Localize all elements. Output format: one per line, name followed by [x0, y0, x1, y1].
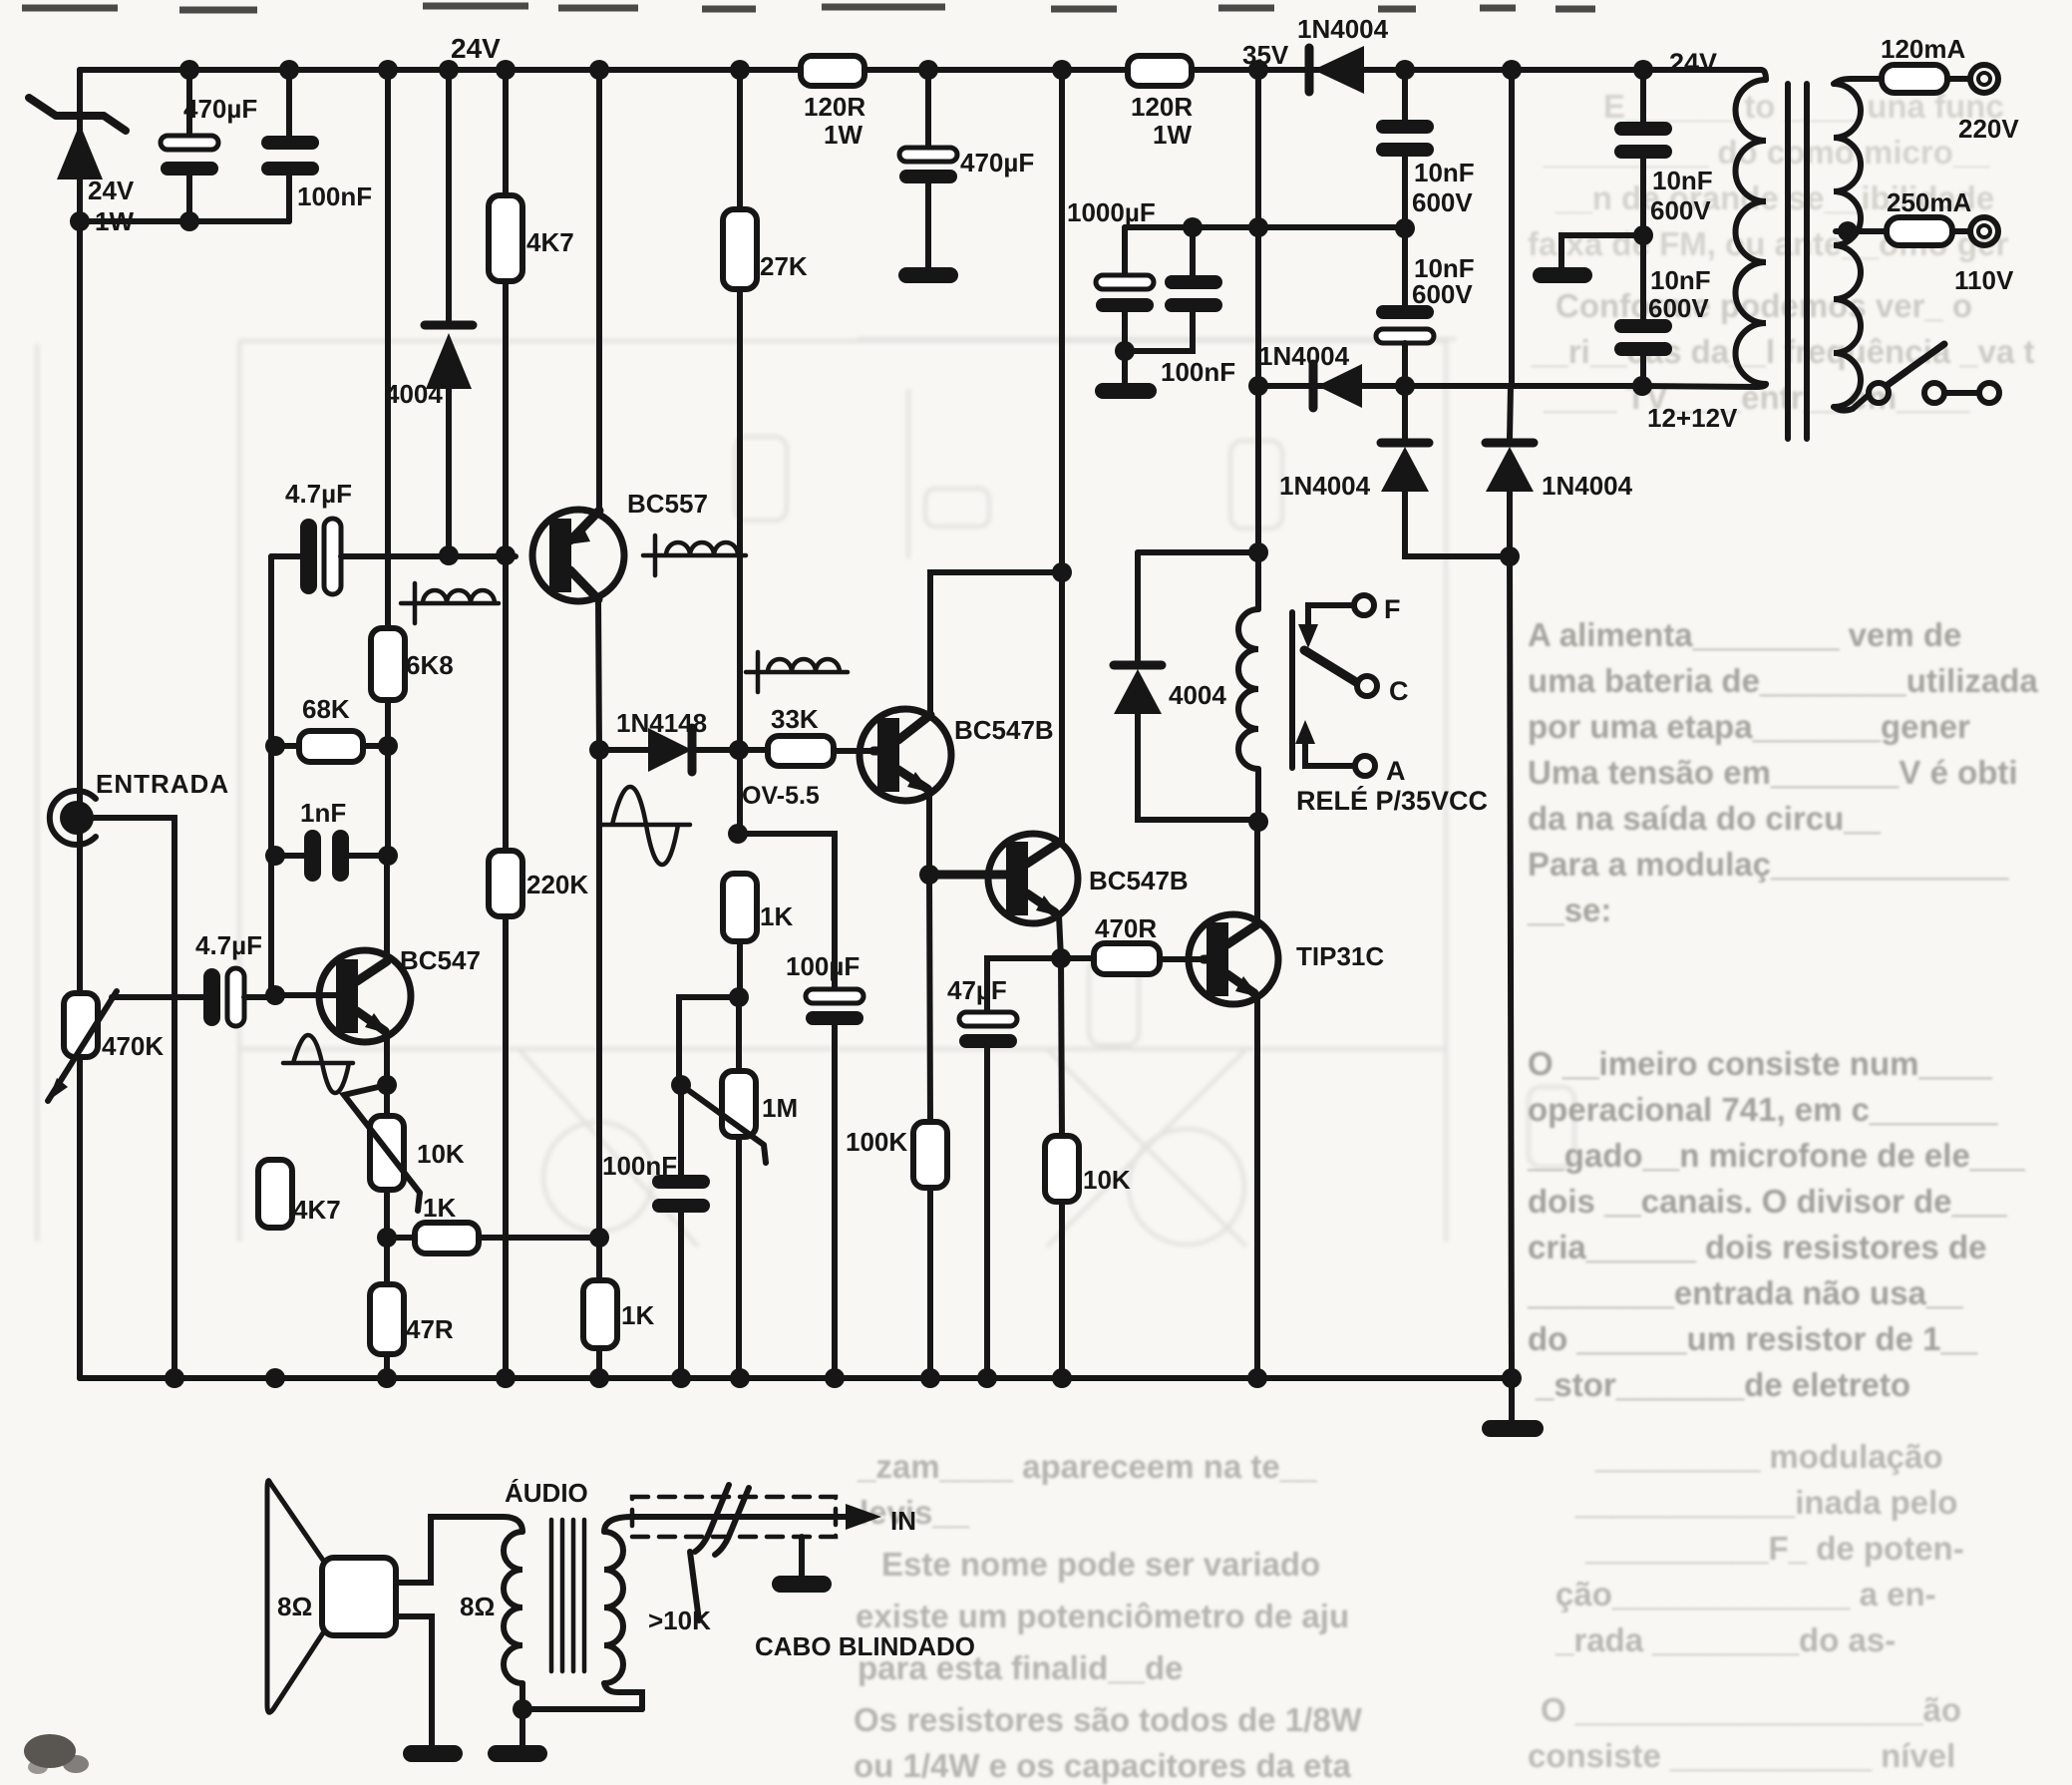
- svg-text:100nF: 100nF: [1161, 357, 1235, 387]
- node: emitter/pot junction: [377, 1075, 397, 1095]
- capacitor C2 100nF: [261, 70, 372, 221]
- node: ground junction at 100K: [920, 1368, 940, 1388]
- svg-text:8Ω: 8Ω: [277, 1592, 312, 1621]
- ground symbol main: [1482, 1420, 1544, 1437]
- svg-text:1nF: 1nF: [300, 798, 346, 828]
- node: ground junction at 47uF: [977, 1368, 997, 1388]
- svg-text:10K: 10K: [417, 1139, 465, 1169]
- node: junction x1647 on 12V line: [1632, 376, 1652, 396]
- wire: x389 column 68K node to 1nF node: [385, 746, 391, 856]
- node: ground rail right end junction: [1502, 1368, 1522, 1388]
- node: collector / 1N4148 junction: [589, 740, 609, 760]
- resistor R16 120R 1W second: [1128, 56, 1193, 150]
- wire: TIP31C collector up to relay node: [1254, 824, 1260, 924]
- svg-text:12+12V: 12+12V: [1647, 403, 1738, 433]
- resistor R10 27K: [723, 70, 808, 833]
- svg-text:1W: 1W: [1153, 120, 1192, 150]
- svg-text:____________inada pelo: ____________inada pelo: [1574, 1484, 1957, 1521]
- svg-text:Uma tensão em_______V é obti: Uma tensão em_______V é obti: [1528, 754, 2018, 791]
- svg-text:BC547B: BC547B: [954, 715, 1054, 745]
- node: ground rail junction at 47R: [377, 1368, 397, 1388]
- capacitor C15 10nF 600V fourth: [1614, 235, 1711, 386]
- wire: 0V ground rail: [80, 1375, 1512, 1381]
- resistor R11 1K vertical x742: [723, 874, 793, 997]
- svg-text:47µF: 47µF: [947, 975, 1007, 1005]
- diode D6 4004 relay flyback: [1114, 552, 1258, 820]
- diode D2 4004 vertical: [385, 70, 473, 555]
- coil squiggle right of BC557: [643, 535, 746, 575]
- capacitor C13 10nF 600V lower: [1376, 228, 1475, 386]
- svg-text:8Ω: 8Ω: [460, 1592, 495, 1621]
- svg-text:IN: IN: [890, 1506, 916, 1536]
- wire: BC557 emitter up to rail: [596, 70, 602, 511]
- wire: x1065 column from rail down to Q4 collector: [1059, 70, 1065, 843]
- wire: down to ground bar: [1122, 351, 1128, 383]
- capacitor C14 10nF 600V third: [1614, 122, 1713, 235]
- svg-text:1W: 1W: [824, 120, 863, 150]
- fuse F2 250mA: [1887, 187, 1971, 245]
- audio transformer T2 secondary >10K: [604, 1517, 711, 1709]
- node: 68K right junction: [378, 736, 398, 756]
- node: top rail junction at 4K7: [496, 60, 516, 80]
- ground symbol under speaker: [403, 1745, 463, 1762]
- wire: down to ground: [519, 1709, 525, 1745]
- svg-text:ou 1/4W e os capacitores: ou 1/4W e os capacitores da eta: [854, 1747, 1351, 1784]
- wire: speaker bottom lead: [396, 1616, 432, 1745]
- node: 33K line junction at x742 column: [729, 740, 749, 760]
- svg-text:10nF: 10nF: [1652, 166, 1713, 195]
- svg-text:47R: 47R: [406, 1314, 454, 1344]
- ground symbol under 1000uF: [1095, 383, 1157, 399]
- node: junction x1409 on 12V line: [1395, 376, 1415, 396]
- svg-text:Conforme podemos ver_ o: Conforme podemos ver_ o: [1555, 287, 1972, 324]
- wire: x1515 column down to ground rail: [1510, 556, 1512, 1378]
- svg-text:da na saída do circu__: da na saída do circu__: [1528, 800, 1882, 837]
- svg-text:O __imeiro consiste num____: O __imeiro consiste num____: [1528, 1045, 1993, 1082]
- transistor Q4 BC547B second: [929, 834, 1189, 923]
- svg-text:__________F_ de poten-: __________F_ de poten-: [1584, 1530, 1964, 1567]
- transformer T1 core: [1788, 84, 1807, 439]
- svg-text:__se:: __se:: [1527, 892, 1611, 928]
- svg-text:4K7: 4K7: [293, 1195, 341, 1225]
- svg-text:_zam____ apareceem na te__: _zam____ apareceem na te__: [857, 1448, 1317, 1485]
- connector 110V output: [1954, 217, 2014, 295]
- node: ground rail junction at 4K7: [265, 1368, 285, 1388]
- wire: x389 column from top rail to 6K8: [385, 70, 391, 628]
- svg-text:4.7µF: 4.7µF: [195, 930, 262, 960]
- node: junction relay top / 35V column: [1248, 542, 1268, 562]
- svg-text:68K: 68K: [302, 694, 350, 724]
- node: junction 35V column y228: [1248, 217, 1268, 237]
- node: top rail junction at 4004: [439, 60, 459, 80]
- diode D4 1N4004 top rail: [1297, 14, 1389, 94]
- node: BC557 base junction at 4K7: [496, 545, 516, 565]
- svg-text:TIP31C: TIP31C: [1296, 941, 1384, 971]
- svg-text:10nF: 10nF: [1414, 158, 1475, 187]
- node: ground rail junction at 220K: [496, 1368, 516, 1388]
- relay coil RL1: [1238, 552, 1292, 822]
- wire: drop to chassis ground: [1509, 1378, 1515, 1420]
- node: rail junction x1409: [1395, 60, 1415, 80]
- node: Q3 emitter / Q4 base junction: [919, 865, 939, 885]
- node: top rail junction at BC557 emitter: [589, 60, 609, 80]
- audio transformer T2 core: [551, 1520, 584, 1671]
- node: rail junction x1648: [1633, 60, 1653, 80]
- speaker 8 ohm: [267, 1481, 396, 1713]
- svg-text:4K7: 4K7: [526, 227, 574, 257]
- svg-text:__ri__cas da__l frequência _va: __ri__cas da__l frequência _va t: [1531, 333, 2034, 370]
- svg-text:4004: 4004: [1169, 680, 1226, 710]
- transformer T1 secondary winding: [1834, 84, 1861, 407]
- svg-text:_stor_______de eletreto: _stor_______de eletreto: [1535, 1366, 1910, 1403]
- node: x601 1K-horizontal junction: [589, 1228, 609, 1248]
- wire: shield drop to ground: [799, 1537, 805, 1576]
- node: top rail junction at 470uF2: [918, 60, 938, 80]
- transistor Q1 BC547: [319, 945, 481, 1042]
- resistor R15 120R 1W first: [801, 56, 865, 150]
- wire: relay top line: [1138, 549, 1258, 555]
- node: 1M wiper / 100nF junction: [671, 1075, 691, 1095]
- cable break slashes: [695, 1485, 749, 1555]
- svg-text:600V: 600V: [1648, 293, 1709, 323]
- wire: x1516 column: [1510, 70, 1512, 439]
- capacitor C5 1nF: [275, 798, 388, 882]
- node: junction x1648 y236: [1633, 225, 1653, 245]
- wire: x1648 column top: [1640, 70, 1646, 122]
- svg-text:33K: 33K: [771, 704, 819, 734]
- svg-text:_rada ________do as-: _rada ________do as-: [1554, 1621, 1896, 1658]
- svg-text:110V: 110V: [1954, 265, 2014, 295]
- wire: feedback column x=274 from 4.7uF top down to base node: [268, 556, 274, 995]
- svg-text:O ___________________ão: O ___________________ão: [1541, 1691, 1961, 1728]
- resistor R9 33K: [739, 704, 873, 810]
- wire: 1000uF top line y=228: [1125, 224, 1405, 230]
- wire: x601 column down to 1K junction: [596, 750, 602, 1238]
- svg-text:operacional 741, em c_______: operacional 741, em c_______: [1528, 1091, 1998, 1128]
- svg-text:_________ do como micro__: _________ do como micro__: [1543, 134, 1990, 171]
- capacitor C1 470uF electrolytic: [161, 70, 257, 221]
- svg-text:4.7µF: 4.7µF: [285, 479, 352, 509]
- capacitor C7 100nF vertical: [602, 1085, 710, 1378]
- svg-text:uma bateria de________utilizad: uma bateria de________utilizada: [1528, 662, 2038, 699]
- node: BC557 base line junction at 4004: [439, 545, 459, 565]
- svg-text:600V: 600V: [1650, 195, 1711, 225]
- zener diode D1 24V 1W: [29, 70, 135, 236]
- svg-text:BC547B: BC547B: [1089, 866, 1189, 895]
- connector 220V output: [1958, 65, 2019, 144]
- wire: x1409 column top: [1402, 70, 1408, 120]
- svg-text:1M: 1M: [762, 1093, 798, 1123]
- svg-text:24V: 24V: [1669, 48, 1717, 78]
- svg-text:ÁUDIO: ÁUDIO: [505, 1478, 588, 1508]
- svg-text:dois __canais. O divisor de_: dois __canais. O divisor de___: [1528, 1183, 2007, 1220]
- scan artifacts: top edge dashes: [22, 6, 1595, 10]
- wire: base node to BC547: [275, 992, 345, 998]
- svg-text:220V: 220V: [1958, 114, 2019, 144]
- svg-text:1K: 1K: [423, 1193, 456, 1223]
- svg-text:1N4004: 1N4004: [1297, 14, 1389, 44]
- ground symbol at cap midpoint: [1533, 267, 1592, 283]
- potentiometer P3 1M: [681, 997, 798, 1378]
- node: junction x1409 y229: [1395, 218, 1415, 238]
- svg-text:6K8: 6K8: [406, 650, 454, 680]
- diode D3 1N4148: [599, 708, 739, 772]
- wire: junction to 100uF column: [738, 834, 835, 989]
- svg-text:470R: 470R: [1095, 913, 1157, 943]
- resistor R3 1K horizontal: [387, 1193, 599, 1253]
- coil squiggle above 33K: [746, 652, 848, 692]
- node: top rail junction x1065: [1052, 60, 1072, 80]
- svg-text:Este nome pode ser variado: Este nome pode ser variado: [881, 1546, 1320, 1583]
- node: junction left bus / cap bus: [70, 211, 90, 231]
- wire: BC547 emitter down: [384, 1033, 390, 1085]
- wire: capacitor bottom bus y=222: [80, 218, 289, 224]
- transformer T1 primary winding: [1642, 70, 1766, 387]
- svg-text:24V: 24V: [88, 176, 135, 205]
- svg-text:E______ to ____ una func: E______ to ____ una func: [1603, 88, 2004, 125]
- wire: 12+12V line: [1258, 383, 1642, 389]
- shielded cable dashed box: [632, 1497, 836, 1537]
- node: top rail junction at 470uF: [179, 60, 199, 80]
- capacitor C10 1000uF electrolytic: [1067, 197, 1156, 351]
- svg-text:250mA: 250mA: [1887, 187, 1971, 217]
- diode D5 1N4004 on 12V line: [1258, 341, 1362, 408]
- potentiometer P2 10K: [344, 1085, 465, 1238]
- svg-text:100nF: 100nF: [602, 1151, 677, 1181]
- svg-text:_________ modulação: _________ modulação: [1594, 1438, 1943, 1475]
- capacitor C12 10nF 600V: [1376, 120, 1475, 228]
- svg-text:470K: 470K: [102, 1031, 164, 1061]
- svg-text:1N4148: 1N4148: [616, 708, 707, 738]
- node: transformer ground junction: [513, 1699, 532, 1719]
- svg-text:1N4004: 1N4004: [1258, 341, 1350, 371]
- node: 68K left junction: [265, 736, 285, 756]
- node: ground junction x742: [730, 1368, 750, 1388]
- node: top rail junction at 27K: [730, 60, 750, 80]
- svg-text:120R: 120R: [804, 92, 865, 122]
- ghost bleed-through schematic shapes: [37, 339, 1574, 1247]
- svg-text:24V: 24V: [451, 33, 501, 64]
- svg-text:A alimenta________ vem de: A alimenta________ vem de: [1528, 616, 1961, 653]
- diode D8 1N4004 right: [1486, 443, 1633, 556]
- svg-text:470µF: 470µF: [960, 148, 1034, 178]
- wire: Q3 emitter down to Q4 base node: [926, 789, 932, 875]
- svg-text:1000µF: 1000µF: [1067, 197, 1156, 227]
- diode D7 1N4004 left: [1279, 386, 1509, 556]
- audio transformer T2 primary 8 ohm: [460, 1478, 588, 1709]
- svg-text:ENTRADA: ENTRADA: [96, 769, 229, 799]
- svg-text:10nF: 10nF: [1650, 265, 1711, 295]
- scan artifact: bottom left smudge: [24, 1734, 89, 1774]
- svg-text:Para a modulaç_____________: Para a modulaç_____________: [1528, 846, 2009, 883]
- relay contacts F C A: [1295, 594, 1488, 816]
- svg-text:600V: 600V: [1412, 279, 1473, 309]
- wire: jack to down lead: [94, 818, 174, 1378]
- svg-text:470µF: 470µF: [183, 94, 257, 124]
- svg-text:27K: 27K: [760, 251, 808, 281]
- resistor R8 1K vertical x601: [583, 1238, 654, 1378]
- ground symbol under transformer: [488, 1745, 547, 1762]
- wire: speaker top lead: [396, 1517, 503, 1583]
- capacitor C3 4.7uF coupling (bottom): [195, 930, 275, 1026]
- wire: 24V top rail: [80, 67, 1761, 73]
- svg-text:1N4004: 1N4004: [1279, 471, 1371, 501]
- wire: left vertical bus from top rail to ground rail: [77, 70, 83, 1378]
- capacitor C9 470uF electrolytic second: [899, 70, 1034, 267]
- transistor Q5 TIP31C: [1189, 914, 1384, 1004]
- fuse F1 120mA: [1881, 34, 1970, 93]
- wire: BC547 collector up to 1nF node: [384, 856, 390, 961]
- svg-text:F: F: [1384, 594, 1401, 624]
- wire: stub to chassis ground: [1561, 235, 1643, 267]
- node: 1K bottom / 1M top junction: [729, 987, 749, 1007]
- svg-text:__gado__n microfone de ele___: __gado__n microfone de ele___: [1527, 1137, 2026, 1174]
- ground symbol at cable shield: [772, 1576, 832, 1593]
- node: ground rail junction at input lead: [165, 1368, 184, 1388]
- svg-text:BC547: BC547: [400, 945, 481, 975]
- resistor R7 220K: [489, 555, 588, 1378]
- resistor R1 68K: [275, 694, 388, 762]
- wire: secondary top tap to fuse: [1834, 79, 1882, 84]
- capacitor C8 47uF electrolytic: [947, 958, 1061, 1378]
- svg-text:OV-5.5: OV-5.5: [742, 782, 820, 810]
- node: junction relay bottom / TIP collector: [1248, 812, 1268, 832]
- wire: BC557 collector down: [598, 599, 599, 750]
- svg-text:por uma etapa_______gener: por uma etapa_______gener: [1528, 708, 1970, 745]
- capacitor C4 4.7uF (top, to BC557 base line): [271, 479, 516, 594]
- wire: signal line with IN arrow: [632, 1514, 854, 1520]
- svg-text:do ______um resistor de 1__: do ______um resistor de 1__: [1528, 1320, 1978, 1357]
- svg-text:A: A: [1386, 756, 1406, 786]
- resistor R4 47R: [370, 1238, 454, 1378]
- resistor R2 4K7 emitter-left column: [258, 1160, 341, 1228]
- wire: 35V column x1262: [1255, 70, 1261, 609]
- node: 1nF right junction: [378, 846, 398, 866]
- transistor Q3 BC547B first: [860, 709, 1054, 801]
- svg-text:120R: 120R: [1131, 92, 1193, 122]
- ground symbol under 470uF2: [898, 267, 958, 283]
- node: cap bus junction at 470uF: [179, 211, 199, 231]
- transistor Q2 BC557 PNP: [532, 489, 708, 601]
- svg-text:BC557: BC557: [627, 489, 708, 519]
- node: junction 35V column y387: [1248, 376, 1268, 396]
- svg-text:4004: 4004: [385, 379, 443, 409]
- svg-text:10K: 10K: [1083, 1165, 1131, 1195]
- node: ground junction x601: [589, 1368, 609, 1388]
- svg-text:100K: 100K: [846, 1127, 907, 1157]
- node: 27K bottom / 100uF line junction: [728, 824, 748, 844]
- svg-text:________entrada não usa__: ________entrada não usa__: [1527, 1274, 1963, 1311]
- node: ground junction at TIP31C: [1247, 1368, 1267, 1388]
- node: ground junction at 100nF: [671, 1368, 691, 1388]
- resistor R5 6K8: [371, 628, 454, 746]
- svg-text:1N4004: 1N4004: [1542, 471, 1633, 501]
- resistor R12 100K: [846, 875, 947, 1378]
- node: junction diode anodes x1514: [1500, 546, 1520, 566]
- svg-text:C: C: [1389, 676, 1409, 706]
- node: x1065 collector junction: [1052, 562, 1072, 582]
- svg-text:ção_____________ a en-: ção_____________ a en-: [1555, 1576, 1936, 1612]
- resistor R14 470R: [1061, 913, 1204, 974]
- potentiometer P1 470K volume: [48, 221, 164, 1378]
- svg-text:120mA: 120mA: [1881, 34, 1965, 64]
- capacitor C11 100nF: [1161, 227, 1235, 387]
- svg-text:cria______ dois resistores d: cria______ dois resistores de: [1528, 1229, 1986, 1265]
- svg-text:100µF: 100µF: [786, 951, 860, 981]
- resistor R6 4K7 from rail: [489, 70, 574, 555]
- switch SW1: [1834, 344, 1999, 411]
- node: 470R / 47uF junction: [1051, 948, 1071, 968]
- svg-text:1K: 1K: [760, 901, 793, 931]
- wire: secondary middle tap: [1836, 228, 1887, 234]
- node: ground junction at 10K: [1052, 1368, 1072, 1388]
- ghost article text right column and bottom: [854, 88, 2038, 1784]
- wire: Q4 emitter down to 470R node: [1059, 915, 1061, 958]
- sine wave symbol near 1N4148: [602, 787, 690, 865]
- svg-text:Os resistores são todos de: Os resistores são todos de 1/8W: [854, 1701, 1363, 1738]
- node: 10K bottom / 1K junction: [377, 1228, 397, 1248]
- svg-text:100nF: 100nF: [297, 181, 372, 211]
- node: ground junction at 100uF: [825, 1368, 845, 1388]
- node: rail junction x1516: [1502, 60, 1522, 80]
- svg-text:RELÉ P/35VCC: RELÉ P/35VCC: [1296, 785, 1488, 816]
- wire: Q3 collector up and over to x1065: [930, 572, 1062, 715]
- svg-text:existe um potenciômetro de: existe um potenciômetro de aju: [856, 1598, 1349, 1634]
- node: top rail junction x389: [378, 60, 398, 80]
- wire: junction to 100nF column corner: [679, 997, 739, 1085]
- svg-text:220K: 220K: [526, 870, 588, 899]
- node: 1nF left junction: [265, 846, 285, 866]
- svg-text:consiste ___________ nível: consiste ___________ nível: [1528, 1737, 1955, 1774]
- pointer line for CABO BLINDADO: [690, 1552, 699, 1620]
- node: junction 100nF top: [1183, 217, 1203, 237]
- wire: pot wiper to coupling cap: [112, 994, 205, 1000]
- svg-text:CABO BLINDADO: CABO BLINDADO: [755, 1631, 975, 1661]
- node: top rail junction at 100nF: [279, 60, 299, 80]
- svg-text:600V: 600V: [1412, 187, 1473, 217]
- svg-text:1K: 1K: [621, 1300, 654, 1330]
- resistor R13 10K vertical: [1045, 958, 1131, 1378]
- wire: TIP31C emitter down to ground rail: [1254, 996, 1260, 1378]
- node: junction 1000uF/100nF bottoms: [1115, 341, 1135, 361]
- coil squiggle below BC557: [401, 583, 499, 623]
- node: middle tap junction: [1838, 221, 1858, 241]
- node: BC547 base node: [265, 985, 285, 1005]
- node: top rail junction at 35V: [1248, 60, 1268, 80]
- capacitor C6 100uF electrolytic: [786, 951, 863, 1378]
- wire: transformer bottom tie: [522, 1706, 642, 1712]
- connector J1 ENTRADA input jack: [50, 769, 229, 845]
- wire: cap bottoms tie: [1125, 312, 1193, 351]
- sine wave symbol near BC547: [283, 1035, 353, 1093]
